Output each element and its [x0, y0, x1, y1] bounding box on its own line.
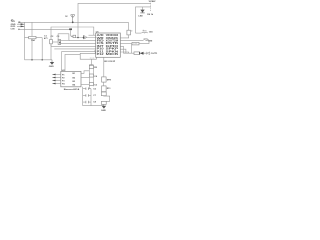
C5 mark — [131, 30, 132, 31]
resistor R3 body on x=51 — [50, 40, 53, 44]
wire U1 right pin4 down — [120, 46, 123, 53]
ladder rail joint — [89, 88, 91, 90]
crystal Y2 body — [143, 39, 149, 42]
wire box1 to box2 — [52, 41, 58, 43]
wire row4 — [18, 28, 71, 30]
wire top rail corner to C5 — [127, 22, 129, 30]
U2 right pin 3 wire — [81, 83, 89, 85]
U1 left pin stubs — [89, 34, 96, 36]
junction dot box2 — [59, 42, 60, 43]
ground symbol GND1 — [51, 60, 53, 62]
svg-text:Buzzer+MCA: Buzzer+MCA — [64, 88, 80, 91]
ladder rung 2 — [83, 94, 91, 96]
dashed stub VBAT — [150, 1, 152, 12]
U1 pin name texts left column — [97, 34, 105, 56]
wire arrow row3 — [17, 25, 25, 27]
capacitor C10 body — [142, 31, 148, 34]
U2 pin names col2 — [73, 73, 76, 87]
wire VCC right rail from x=78 — [78, 3, 151, 37]
wire U1 right pin5 down — [120, 49, 126, 53]
stack top tee — [89, 64, 93, 66]
chain box B4 — [101, 101, 106, 104]
capacitor C5 body — [127, 30, 131, 35]
svg-text:C5: C5 — [94, 84, 98, 86]
svg-text:C8: C8 — [93, 102, 97, 104]
ladder rail left x=82.7 — [82, 87, 84, 106]
svg-text:5V: 5V — [65, 16, 68, 18]
wire top long (net VDD) — [18, 21, 128, 23]
svg-text:R6 1k: R6 1k — [147, 14, 154, 16]
svg-text:SPK: SPK — [107, 79, 112, 81]
chain box B3 — [101, 92, 106, 96]
wire chain — [103, 82, 105, 106]
SP1 inner dashes — [90, 57, 95, 59]
wire R7 right corner up to crystal — [139, 40, 149, 43]
U2 right pin 1 wire — [81, 71, 89, 74]
svg-text:P12: P12 — [97, 53, 105, 56]
wire vertical x=42.2 down to bus — [41, 38, 43, 60]
junction dot bus1 — [31, 59, 33, 61]
U1 pin name texts right column — [106, 34, 120, 56]
wire U1 right pin3 — [120, 43, 132, 45]
capacitor chain box B1 — [102, 77, 107, 82]
resistor R2 body — [29, 36, 36, 38]
svg-text:BAT: BAT — [152, 0, 157, 3]
wire arrow row2 — [17, 23, 25, 25]
wire vertical B x=32 — [31, 22, 33, 60]
IC U1 body — [96, 33, 121, 57]
stack rail left — [88, 65, 90, 89]
svg-text:C6: C6 — [93, 89, 97, 91]
svg-text:C4: C4 — [94, 75, 98, 78]
stack stub up — [90, 59, 92, 64]
speaker box SP1 — [80, 53, 96, 59]
wire U1 pin8 to speaker box — [65, 54, 80, 71]
wire blob down to mic — [70, 30, 72, 36]
svg-text:GND: GND — [101, 110, 106, 112]
capacitor bar at x=83.6 — [83, 35, 85, 39]
wire mic to U1 pin2 — [76, 37, 96, 39]
wire resistor row y=37.6 — [25, 37, 43, 39]
mic polarity marks — [71, 35, 73, 37]
ladder rung 1 — [83, 88, 91, 90]
svg-text:R5: R5 — [94, 67, 98, 69]
U2 pin names col1 — [62, 74, 65, 85]
stack box C4b — [89, 74, 93, 77]
U2 right pin 2 wire — [81, 77, 89, 79]
wire U1 pin4 — [59, 43, 95, 46]
chain box B2 — [102, 86, 107, 92]
wire bottom right row — [123, 52, 146, 54]
stack box R5 — [89, 66, 93, 69]
cap C8 plates — [86, 101, 89, 104]
diode D2 dark — [140, 52, 144, 55]
cap triangle — [84, 36, 87, 39]
arrowhead row2 — [21, 23, 25, 25]
stack box C5b — [89, 82, 93, 85]
wire U1 pin6 — [54, 48, 95, 50]
svg-text:LED: LED — [138, 15, 143, 17]
capacitor C10 wire — [136, 32, 142, 34]
resistor R4 body x=58.4 — [58, 40, 61, 45]
svg-text:OUT1: OUT1 — [151, 53, 158, 55]
svg-text:R11: R11 — [107, 88, 112, 90]
arrowhead row3 — [21, 26, 25, 28]
cap C6 plates — [86, 87, 89, 90]
wire U1 pin5 — [51, 45, 96, 47]
ladder rung 3 — [83, 101, 91, 103]
SP1 top ground mark — [95, 50, 97, 53]
svg-text:MICB: MICB — [106, 53, 119, 56]
svg-text:104: 104 — [31, 39, 35, 42]
ladder rail right x=91 — [90, 89, 92, 106]
wire U1 pin3 — [69, 40, 96, 42]
arrowhead row4 — [18, 29, 21, 31]
ground bus y=59.8 — [25, 59, 53, 61]
wire LED rail — [136, 7, 151, 33]
LED D1 triangle — [140, 10, 144, 13]
junction dot bus2 — [41, 59, 43, 61]
mic box MK1 — [73, 35, 76, 38]
svg-text:GND: GND — [49, 66, 54, 68]
wire loop rectangle — [58, 34, 69, 41]
junction dot cap — [83, 37, 85, 39]
U2 left pin 3 — [52, 80, 61, 82]
wire U1 right pin6 down — [120, 52, 128, 53]
loop rect right — [104, 96, 110, 101]
connector symbol right — [147, 52, 150, 55]
R7 inner marks — [134, 43, 138, 45]
wire C5 to U1 right pin1 — [120, 35, 128, 38]
power flag +5V at x=71.5 — [71, 15, 75, 22]
wire branch down x=131.6 — [131, 44, 133, 54]
ladder bottom wire to chain — [83, 105, 104, 107]
resistor R8 body — [134, 52, 139, 55]
wire U1 pin7 to U2 — [62, 52, 96, 72]
ground symbol GND2 — [102, 106, 107, 109]
resistor R7 body — [132, 42, 139, 45]
svg-text:C2: C2 — [51, 36, 55, 38]
junction dot vcc-mic wire — [77, 37, 79, 39]
U2 left pin 4 — [52, 83, 61, 85]
svg-text:MIC-CON 2P: MIC-CON 2P — [104, 61, 116, 63]
svg-text:104: 104 — [149, 31, 153, 34]
wire U1 right pin2 to crystal — [120, 39, 143, 41]
wire corner x=51 top — [51, 27, 94, 46]
wire U1 bottom pin down — [103, 57, 105, 77]
cap C7 plates — [86, 94, 89, 97]
LED D1 stub — [142, 7, 144, 10]
arrowhead row1 — [19, 21, 22, 23]
stack rail right — [92, 65, 94, 87]
svg-text:471: 471 — [44, 37, 48, 40]
U2 left pin 1 — [52, 74, 61, 76]
svg-text:C7: C7 — [93, 95, 97, 97]
U2 left pin 2 — [52, 77, 61, 79]
junction blob on row4 wire — [69, 28, 72, 30]
wire x=51 to ground bus — [50, 44, 52, 60]
svg-text:CVD: CVD — [11, 29, 16, 31]
power flag VBAT top right — [149, 0, 152, 2]
wire vertical A x=24.5 — [24, 22, 26, 60]
junction dot power — [72, 21, 74, 23]
svg-text:16M: 16M — [148, 41, 152, 43]
IC U2 body — [61, 71, 81, 86]
